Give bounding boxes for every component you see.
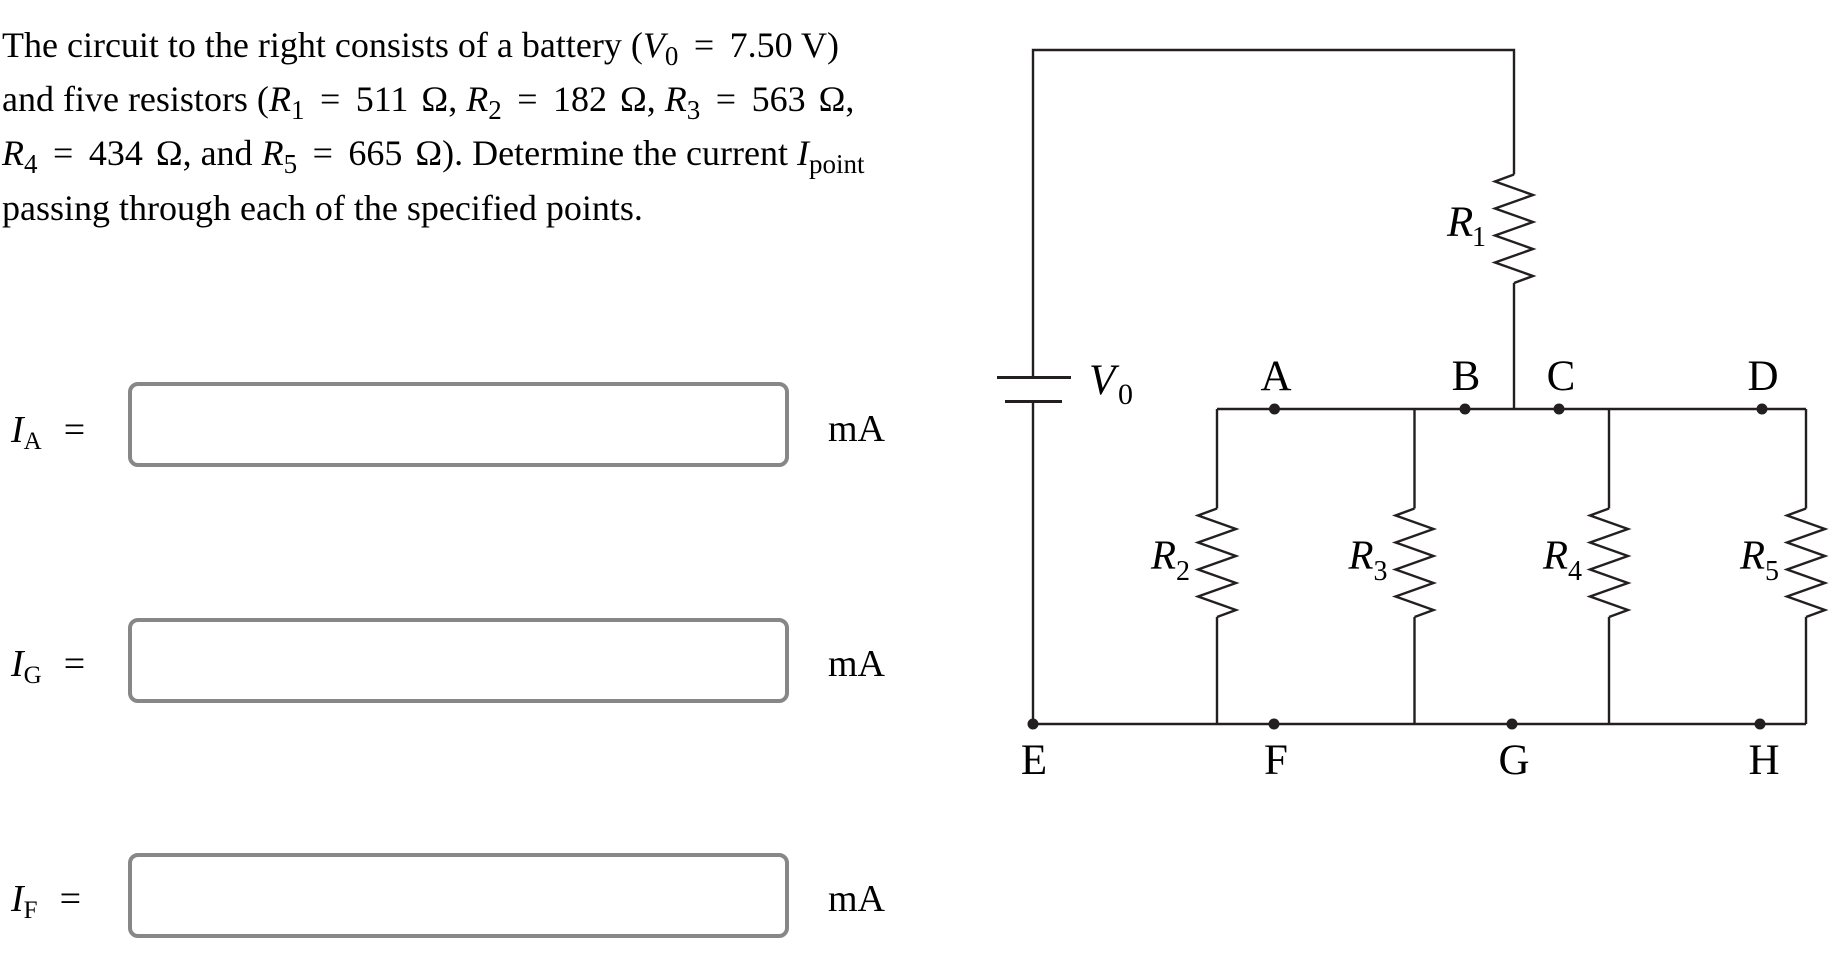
svg-text:A: A — [1260, 353, 1291, 400]
svg-text:R: R — [1150, 532, 1176, 578]
svg-text:R: R — [1348, 532, 1374, 578]
svg-text:G: G — [1498, 737, 1529, 784]
svg-text:C: C — [1547, 353, 1576, 400]
svg-text:R: R — [1739, 532, 1765, 578]
svg-text:B: B — [1452, 353, 1481, 400]
svg-text:D: D — [1747, 353, 1778, 400]
svg-text:F: F — [1264, 737, 1288, 784]
svg-text:H: H — [1748, 737, 1779, 784]
svg-text:R: R — [1446, 199, 1473, 246]
svg-text:2: 2 — [1176, 556, 1190, 587]
svg-text:4: 4 — [1568, 556, 1582, 587]
svg-text:3: 3 — [1374, 556, 1388, 587]
svg-text:0: 0 — [1118, 378, 1133, 411]
svg-text:1: 1 — [1472, 222, 1486, 253]
svg-text:5: 5 — [1765, 556, 1779, 587]
svg-text:R: R — [1542, 532, 1568, 578]
svg-text:E: E — [1021, 737, 1047, 784]
svg-text:V: V — [1089, 357, 1120, 404]
